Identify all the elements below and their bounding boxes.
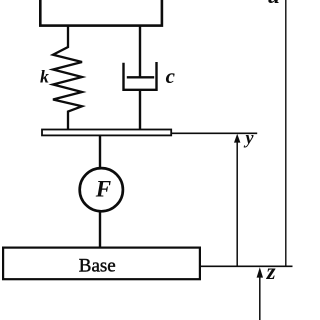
arrowhead y (pointing up) <box>234 134 240 143</box>
reference line from base to z/u lines <box>201 265 293 267</box>
damper c piston plate <box>127 76 154 78</box>
svg-text:z: z <box>266 259 276 284</box>
svg-text:y: y <box>244 128 255 148</box>
wire: u measurement vertical line (full height right side) <box>285 0 287 266</box>
force source F (circle) <box>80 168 123 211</box>
wire: y measurement vertical line <box>236 141 238 266</box>
arrowhead z (pointing up) <box>257 267 263 277</box>
svg-text:c: c <box>166 64 176 88</box>
svg-text:u: u <box>268 0 280 8</box>
mass block M (top box, cut off at top) <box>40 0 162 26</box>
svg-text:Base: Base <box>79 256 116 277</box>
svg-text:k: k <box>40 66 49 86</box>
base box <box>3 248 200 280</box>
spring k (zigzag between mass and plate) <box>53 26 82 129</box>
damper c piston rod (from mass into cylinder) <box>139 26 141 78</box>
svg-text:F: F <box>95 177 111 202</box>
rod: plate to force source F <box>99 136 101 170</box>
damper c cylinder (open-top U) <box>124 62 157 90</box>
wire: z measurement vertical shaft (from bottom edge up) <box>259 277 261 320</box>
damper c lower rod (cylinder to plate) <box>139 90 141 130</box>
rod: force source F to base <box>99 211 101 248</box>
reference line from plate to y arrow <box>172 132 257 134</box>
plate (thin horizontal bar under spring and damper) <box>42 130 171 136</box>
